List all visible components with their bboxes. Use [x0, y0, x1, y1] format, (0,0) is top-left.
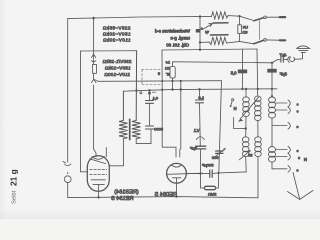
text block Obj note: [154, 29, 190, 48]
coil L6: [271, 145, 273, 147]
switch mains upper: [240, 16, 255, 20]
svg-text:N: N: [304, 157, 307, 162]
transformer AF primary: [119, 91, 128, 139]
socket letters: [297, 103, 301, 173]
svg-text:1σ: 1σ: [165, 61, 170, 65]
arrow coupling L1L2: [240, 97, 258, 119]
wire R2 down into tube1: [94, 85, 96, 157]
wire x=200 vertical: [199, 17, 201, 50]
tube V1 top diagonal: [90, 159, 106, 164]
wire grid line: [187, 173, 210, 175]
resistor R 20 box: [238, 25, 242, 34]
svg-text:4μ7: 4μ7: [279, 52, 287, 57]
plug pin lower: [279, 39, 287, 41]
svg-text:150V~20kΩ: 150V~20kΩ: [102, 31, 130, 36]
node rail/x172: [171, 80, 173, 82]
node rail/x181: [180, 80, 182, 82]
svg-text:0,5: 0,5: [230, 71, 236, 76]
svg-text:Seibt: Seibt: [12, 190, 18, 204]
capacitor C 1,0: [199, 89, 201, 100]
resistor mains dropper lower zigzag: [200, 37, 240, 45]
switch wave lever: [230, 105, 232, 107]
wire secondary bottom to cap: [136, 129, 151, 144]
text block regulator voltages: [102, 59, 131, 77]
wire V2 anode riser: [180, 90, 181, 158]
label Seibt 21g margin: [9, 169, 19, 204]
node bus/anode riser: [180, 88, 182, 90]
wire bottom return bus: [68, 197, 258, 198]
wire right column x=221: [219, 81, 222, 173]
tube V1 anode line: [91, 179, 105, 181]
coil L5: [255, 137, 262, 142]
node bracket/L1: [245, 127, 247, 129]
arrow tap on dropper: [201, 28, 203, 30]
svg-text:0,1: 0,1: [152, 96, 158, 101]
wire grid-leak line to phone/earth: [177, 62, 272, 63]
svg-text:500μF: 500μF: [202, 163, 214, 168]
switch mains lower: [240, 41, 254, 43]
node bus/L3: [271, 88, 273, 90]
capacitor C 5000: [146, 125, 154, 127]
ground earth symbol: [298, 46, 309, 48]
svg-text:(RES164): (RES164): [114, 190, 139, 196]
svg-text:c: c: [297, 110, 299, 114]
terminal circles under bus: [140, 92, 142, 94]
wire coupling down to capsule: [201, 149, 205, 188]
node bus/c05: [241, 88, 243, 90]
wire stub tube top right: [105, 148, 107, 157]
socket arcs column2: [288, 146, 290, 153]
svg-text:21 g: 21 g: [9, 169, 19, 186]
svg-text:c: c: [297, 103, 299, 107]
heater bar lower: [211, 34, 229, 36]
svg-text:230V/1·25kΩ: 230V/1·25kΩ: [102, 59, 131, 64]
svg-text:s: s: [298, 156, 300, 160]
tube V2 grid chord: [167, 173, 203, 174]
svg-text:2MΩ: 2MΩ: [208, 191, 217, 196]
wire rail to bus stub x181: [180, 81, 182, 90]
wire inner box left edge: [81, 51, 88, 172]
switch gang linkage: [259, 21, 261, 40]
node coupling/grid wire: [199, 173, 201, 175]
label R20: [242, 26, 248, 35]
svg-text:3μF: 3μF: [279, 72, 287, 77]
svg-text:1,0: 1,0: [198, 95, 204, 100]
label box10: [165, 61, 170, 77]
node bus/x137: [135, 90, 137, 92]
node bus/tube2: [175, 195, 177, 197]
svg-text:e: e: [297, 169, 299, 173]
svg-text:5000: 5000: [153, 127, 163, 132]
socket arcs column1: [288, 100, 290, 107]
heater bar upper: [213, 22, 228, 24]
capacitor phone coupling plates: [280, 57, 282, 62]
arrow coupling L4: [239, 151, 249, 160]
wire L4 bottom to grid line: [245, 156, 248, 172]
wire left outer drop: [67, 19, 69, 162]
node top bus / dropper right: [238, 15, 240, 17]
wire bracket to L1 bottom: [234, 117, 246, 128]
wire top supply bus: [68, 16, 212, 18]
node y50/x200: [199, 49, 201, 51]
capacitor C 0,1: [149, 90, 151, 100]
transformer AF secondary: [132, 51, 141, 139]
svg-text:RE134 S: RE134 S: [111, 196, 134, 202]
wire primary bottom to tube grid: [109, 139, 123, 166]
wire left to bottom bus: [67, 183, 69, 198]
svg-text:V.1: V.1: [193, 128, 200, 133]
wire HT bus y=90: [123, 89, 277, 91]
wire V2 grid top entry: [162, 90, 176, 157]
dashed enclosure: [142, 70, 162, 85]
svg-text:Obj. 161 90: Obj. 161 90: [166, 43, 189, 48]
svg-text:110V~100Ω: 110V~100Ω: [104, 72, 130, 77]
tube V1 RE134 envelope: [87, 156, 109, 191]
node x200/lower zigzag: [199, 41, 201, 43]
variable capacitor plates: [216, 150, 223, 152]
node top bus / x200: [199, 15, 201, 17]
svg-text:110V~20kΩ: 110V~20kΩ: [103, 37, 131, 42]
node top bus / R2: [92, 17, 95, 20]
node grid/x221: [217, 172, 219, 174]
svg-text:500: 500: [211, 155, 218, 160]
svg-text:uengl. g-o: uengl. g-o: [170, 36, 190, 41]
resistor box 10: [170, 67, 175, 79]
lamp on left wire: [64, 176, 71, 183]
tube V2 RE084 envelope: [167, 163, 187, 183]
svg-text:0Ω: 0Ω: [242, 31, 247, 35]
node L3 top: [271, 95, 273, 97]
coil L3: [271, 89, 273, 97]
arrow variable cap: [213, 149, 224, 158]
capacitor coupling 3uF plates: [196, 145, 206, 147]
wire box10 top to grid-leak line: [173, 62, 178, 67]
svg-text:150V~10kΩ: 150V~10kΩ: [104, 66, 130, 71]
wire y=50 segment: [162, 49, 257, 50]
wire L5 bottom to bus: [257, 156, 259, 197]
transformer core: [129, 119, 131, 139]
node rail/x162: [161, 80, 163, 82]
svg-text:e: e: [297, 125, 299, 129]
dome on coupling line: [196, 137, 204, 140]
node bus/x149: [148, 89, 150, 91]
svg-text:RE084 S: RE084 S: [154, 192, 177, 198]
node bus/L1: [245, 88, 247, 90]
antenna symbol: [293, 173, 300, 199]
tap wires L6: [276, 149, 288, 151]
coil L2: [257, 95, 259, 97]
node bus/x172: [171, 88, 173, 90]
node bus/L2: [257, 88, 259, 90]
svg-text:U/τ: U/τ: [242, 26, 248, 30]
capacitor C 3u: [271, 63, 273, 69]
wire inner box top edge: [81, 50, 137, 52]
resistor grid leak capsule: [204, 186, 215, 189]
wire box10 bottom to bus: [172, 78, 174, 90]
tube V2 cathode: [172, 177, 180, 179]
tube V1 top dome: [92, 157, 105, 160]
node bus/tube1: [97, 196, 99, 198]
terminal block on x200: [196, 29, 201, 33]
svg-text:N: N: [234, 106, 237, 111]
node bus/x162: [161, 89, 163, 91]
svg-text:3μF: 3μF: [189, 145, 197, 150]
wire x=162 drop to rail and bus: [161, 50, 163, 90]
plug pin upper: [279, 16, 287, 18]
svg-text:5: 5: [158, 72, 160, 76]
wire x=257 drop to L2: [256, 49, 259, 96]
svg-text:2Γ: 2Γ: [166, 73, 170, 77]
wire L6 bottom: [272, 162, 287, 169]
svg-text:35: 35: [247, 153, 252, 158]
wire jack to earth: [294, 52, 302, 59]
label RE134: [111, 190, 139, 203]
node bus/x199: [198, 88, 200, 90]
wire heater rail y=81: [98, 80, 222, 83]
tube V1 grid dashes: [90, 169, 107, 171]
tube V2 top dome: [172, 165, 182, 167]
svg-text:225V~55kΩ: 225V~55kΩ: [102, 25, 130, 30]
node y62/x272: [271, 62, 273, 64]
resistor R2 vertical with slider arrows: [93, 18, 95, 54]
svg-text:Wechselstrom s-d: Wechselstrom s-d: [154, 29, 190, 34]
svg-text:0Ω: 0Ω: [165, 67, 170, 71]
capacitor C 0,5: [242, 49, 244, 69]
coil L1: [245, 89, 247, 97]
tap wires L3: [276, 102, 288, 104]
text block mains voltages: [102, 25, 130, 42]
resistor mains dropper upper zigzag: [212, 12, 240, 19]
phone jack: [288, 56, 290, 62]
svg-text:c: c: [297, 149, 299, 153]
tube V1 cathode: [93, 183, 104, 185]
capacitor grid condenser plates: [209, 170, 211, 177]
coil L4: [242, 137, 249, 142]
jack break on left wire: [65, 164, 71, 166]
